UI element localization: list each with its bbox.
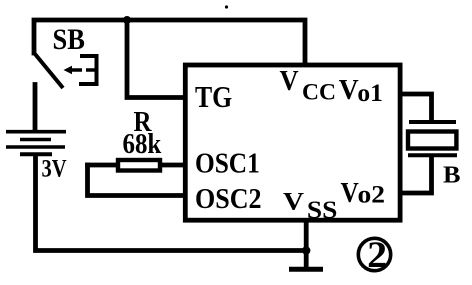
svg-text:V: V	[280, 66, 299, 97]
svg-text:CC: CC	[302, 79, 336, 105]
svg-text:OSC1: OSC1	[195, 148, 260, 180]
svg-text:3V: 3V	[42, 154, 68, 183]
svg-text:68k: 68k	[123, 128, 163, 160]
svg-text:o1: o1	[357, 80, 383, 107]
svg-text:V: V	[341, 177, 359, 209]
svg-text:B: B	[443, 161, 461, 188]
svg-text:2: 2	[367, 234, 387, 275]
svg-text:V: V	[339, 74, 359, 106]
svg-text:TG: TG	[195, 79, 232, 114]
svg-text:V: V	[283, 186, 305, 215]
svg-text:OSC2: OSC2	[195, 183, 262, 215]
svg-text:SS: SS	[307, 195, 338, 224]
svg-text:SB: SB	[53, 24, 85, 56]
svg-text:o2: o2	[358, 181, 386, 208]
